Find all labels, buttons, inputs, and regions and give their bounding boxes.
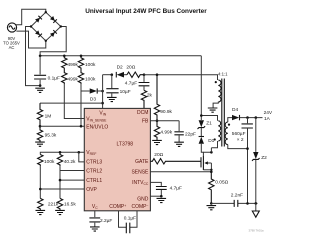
svg-text:24V: 24V [264, 110, 273, 116]
resistor 16.5k [57, 198, 62, 210]
svg-text:95.3k: 95.3k [45, 132, 57, 138]
svg-text:100k: 100k [85, 76, 96, 82]
node D3-VIN riser [101, 90, 104, 93]
node rail-cap [39, 55, 42, 58]
resistor 40.2k [57, 152, 62, 166]
node OVP-divider [39, 188, 42, 191]
wire 40.2k-16.5k column [59, 166, 61, 198]
diode D3 [81, 88, 103, 93]
node sense [210, 171, 213, 174]
svg-text:2k: 2k [147, 93, 153, 99]
svg-text:22pF: 22pF [185, 131, 196, 137]
AC source V1 [7, 23, 16, 32]
node CTRL1-divider [59, 179, 62, 182]
svg-text:499k: 499k [68, 62, 79, 68]
ground 221k [36, 210, 46, 214]
DC bus rail [40, 55, 201, 57]
resistor 20 ohm gate [150, 159, 201, 164]
svg-text:OVP: OVP [86, 187, 97, 193]
diode D4 [232, 115, 263, 120]
wire SENSE [150, 171, 211, 173]
ground input [35, 88, 45, 92]
svg-text:4:1:1: 4:1:1 [218, 72, 228, 77]
wire INTVCC [150, 182, 161, 186]
node dots bridge vertices [45, 11, 47, 13]
svg-text:LT3798: LT3798 [117, 141, 134, 147]
diode D1 [199, 137, 204, 144]
svg-text:90.9k: 90.9k [160, 109, 172, 115]
resistor 499k upper [62, 56, 67, 71]
svg-text:D3: D3 [90, 97, 96, 103]
svg-text:499k: 499k [68, 76, 79, 82]
svg-text:AC: AC [9, 45, 15, 50]
svg-text:16.5k: 16.5k [64, 202, 76, 208]
capacitor 22pF [174, 121, 183, 142]
bridge diode top-left [35, 16, 42, 23]
capacitor 10uF [106, 75, 118, 98]
resistor 95.3k [37, 126, 42, 142]
capacitor 2.2nF [234, 200, 238, 207]
capacitor 2.2uF vc [89, 211, 100, 227]
svg-text:100k: 100k [44, 159, 55, 165]
svg-text:SENSE: SENSE [131, 170, 149, 176]
svg-text:0.1µF: 0.1µF [124, 216, 136, 222]
svg-text:2.2µF: 2.2µF [100, 218, 112, 224]
phase dot aux [215, 81, 217, 83]
transformer T1 core [222, 79, 225, 147]
ground source [207, 206, 217, 210]
capacitor 0.1uF input [34, 56, 46, 86]
op IC U1 LT3798 body [84, 108, 150, 210]
node 90.9k top [156, 73, 159, 76]
phase dot primary [214, 138, 216, 140]
node VIN riser lower [101, 102, 104, 105]
ground 95.3k [35, 142, 45, 146]
wire primary bottom stub [211, 141, 217, 152]
phase dot secondary [228, 124, 230, 126]
wire GND pin [150, 195, 161, 197]
wire aux bottom to ground [213, 102, 218, 108]
svg-text:CTRL3: CTRL3 [86, 160, 102, 166]
node source ground [210, 202, 213, 205]
wire Z1-D1 [200, 128, 202, 136]
node 1M-95.3k [39, 125, 42, 128]
svg-text:1A: 1A [264, 116, 271, 122]
ground 22pF [174, 142, 184, 146]
node secondary bottom [246, 147, 249, 150]
wire 499k chain to VIN_SENSE [64, 84, 84, 119]
wire CTRL3 drop [79, 152, 85, 162]
ground aux [208, 108, 218, 112]
wire VREF [40, 152, 84, 154]
svg-text:0.1µF: 0.1µF [48, 75, 60, 81]
ground 16.5k [55, 210, 65, 214]
svg-text:40.2k: 40.2k [64, 159, 76, 165]
svg-text:GND: GND [137, 196, 149, 202]
svg-text:20Ω: 20Ω [154, 152, 163, 158]
resistor 90.9k [154, 75, 159, 121]
svg-text:Z1: Z1 [206, 121, 212, 127]
node FB [156, 119, 159, 122]
resistor 2k [141, 90, 146, 108]
resistor 1M [37, 103, 42, 126]
ground 10uF [107, 97, 117, 101]
bridge diode bottom-right [50, 30, 57, 37]
capacitor 0.1uF comp [119, 211, 138, 233]
svg-text:1M: 1M [45, 114, 52, 120]
node rail-560uF bottom [246, 202, 249, 205]
wire snubber column [200, 56, 202, 120]
wire secondary top to D4 [228, 118, 232, 122]
svg-text:FB: FB [142, 119, 149, 125]
node snubber-primary [200, 114, 203, 117]
capacitor 4.7uF intvcc [156, 187, 167, 197]
diode D2 [116, 72, 127, 78]
node VREF-40.2k [59, 151, 62, 154]
resistor 499k lower [62, 71, 67, 85]
wire D1 to primary bottom [201, 144, 203, 153]
resistor 0.05 ohm [209, 172, 214, 204]
svg-text:10µF: 10µF [120, 89, 131, 95]
wire Z2 to bottom rail [255, 160, 257, 204]
svg-text:COMP−: COMP− [132, 204, 149, 210]
svg-text:D4: D4 [232, 107, 238, 113]
resistor 221k [38, 198, 43, 210]
bridge rectifier diamond [31, 12, 61, 41]
resistor 100k vref [38, 155, 43, 167]
svg-text:Universal Input 24W PFC Bus Co: Universal Input 24W PFC Bus Converter [85, 8, 207, 15]
wire VIN riser [102, 75, 104, 109]
capacitor 560uF x2 [242, 118, 253, 204]
transformer primary winding [218, 121, 220, 141]
resistor 4.99k [154, 121, 159, 141]
wire CTRL2 [60, 170, 84, 172]
zener Z2 [252, 152, 260, 161]
node rail-100k [80, 55, 83, 58]
svg-text:560µF: 560µF [232, 131, 246, 137]
wire bridge left vertex to input ground node [26, 27, 41, 86]
label 90V TO 265V AC [3, 36, 20, 50]
svg-text:100k: 100k [85, 62, 96, 68]
svg-text:Z2: Z2 [261, 155, 267, 161]
transistor Q1 MOSFET [201, 152, 211, 172]
svg-text:GATE: GATE [135, 159, 149, 165]
wire secondary bottom [228, 145, 248, 149]
resistor 20 ohm top [127, 72, 144, 77]
wire FB [150, 120, 179, 122]
svg-text:4.7µF: 4.7µF [125, 81, 137, 87]
svg-text:CTRL2: CTRL2 [86, 168, 102, 174]
node VREF-CTRL3 [78, 151, 81, 154]
wire aux rail [144, 75, 218, 80]
transformer secondary winding [225, 122, 228, 145]
ground IC [157, 198, 167, 202]
bridge diode top-right [50, 16, 57, 23]
transformer aux winding [218, 80, 221, 102]
node output-Z2 [255, 116, 258, 119]
wire AC bottom to bridge bottom [16, 31, 45, 48]
wire snubber to primary top [201, 116, 217, 121]
wire VIN node horizontal [103, 74, 112, 76]
output common triangle [252, 203, 259, 217]
resistor 100k lower [78, 71, 83, 85]
bottom secondary rail [211, 202, 257, 204]
svg-text:DCM: DCM [137, 110, 148, 116]
svg-text:EN/UVLO: EN/UVLO [86, 125, 108, 131]
svg-text:4.7µF: 4.7µF [170, 185, 182, 191]
svg-text:3798 TA01a: 3798 TA01a [249, 228, 264, 232]
wire 100k-221k column [39, 166, 41, 198]
node rail-Z2 bottom [255, 202, 258, 205]
node 10uF top [111, 73, 114, 76]
wire Z2 column [255, 118, 257, 152]
node gnd [160, 195, 163, 198]
svg-text:COMP+: COMP+ [109, 204, 126, 210]
bridge diode bottom-left [35, 30, 42, 37]
ground 4.99k [152, 140, 162, 144]
svg-text:2.2nF: 2.2nF [231, 193, 243, 199]
svg-text:× 2: × 2 [237, 137, 244, 143]
resistor 100k upper [78, 56, 83, 71]
node input ground [39, 84, 42, 87]
svg-text:4.99k: 4.99k [160, 129, 172, 135]
wire AC top to bridge top [16, 9, 46, 24]
node EN-100k chain [80, 125, 83, 128]
svg-text:0.05Ω: 0.05Ω [215, 180, 228, 186]
node rail-499k [63, 55, 66, 58]
wire 1M top to VIN riser [40, 102, 103, 104]
svg-text:CTRL1: CTRL1 [86, 178, 102, 184]
capacitor 4.7uF snubber [139, 75, 150, 91]
node output-560uF [246, 116, 249, 119]
wire OVP [40, 188, 84, 190]
node 4.7uF top [143, 73, 146, 76]
svg-text:D1: D1 [208, 138, 214, 144]
svg-text:D2: D2 [117, 64, 123, 70]
wire 100k chain down to EN node [80, 84, 82, 126]
wire CTRL1 [60, 179, 84, 181]
ground vc [90, 227, 100, 231]
wire EN/UVLO [40, 125, 84, 127]
svg-text:20Ω: 20Ω [126, 65, 135, 71]
wire bridge right vertex to DC rail jog [40, 27, 66, 56]
zener Z1 [198, 120, 206, 129]
